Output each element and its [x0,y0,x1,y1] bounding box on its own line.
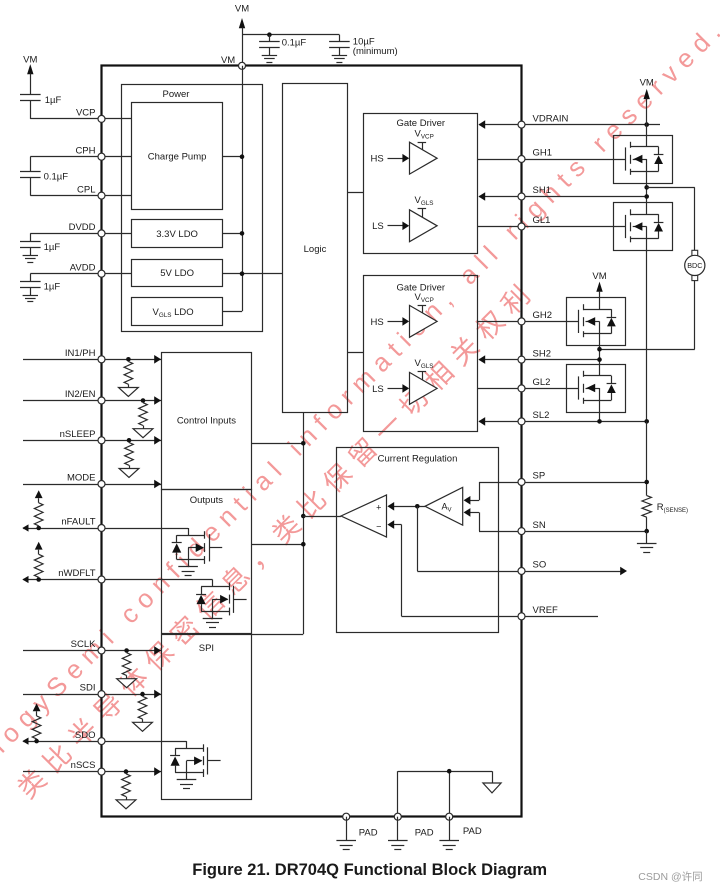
wire PAD1 to ground [346,817,348,841]
node bus at control inputs [301,441,306,446]
wire nWDFLT [23,579,212,581]
node SL2 at M4 source [597,419,602,424]
pin AVDD [98,270,105,277]
block Logic [283,84,348,413]
resistor R(SENSE) [642,496,651,518]
svg-text:PAD: PAD [463,826,482,837]
pin CPH [98,153,105,160]
wire CPL [30,195,131,197]
pin SDO [98,738,105,745]
wire LS input arrow (GD2) [388,388,404,390]
wire AVDD [30,273,131,275]
node nWDFLT pullup tap [36,577,41,582]
svg-text:SL2: SL2 [533,410,550,421]
wire Outputs to bus [251,544,303,546]
svg-text:LS: LS [372,221,384,232]
wire SN [522,531,647,533]
transistor M2 (low side 1) [614,203,673,251]
svg-text:CPH: CPH [75,145,95,156]
svg-text:1µF: 1µF [44,242,61,253]
arrow SDI into SPI [154,690,161,699]
wire VCP [30,118,131,120]
pin SP [518,479,525,486]
wire SH1 to motor [647,187,695,189]
supply tap VGLS (GD2) [418,371,427,373]
wire VM to M1 drain [646,98,648,135]
pin PAD3 [446,813,453,820]
node IN2/EN pulldown tap [141,398,146,403]
capacitor C-DVDD 1uF [30,233,32,241]
svg-text:SN: SN [533,520,546,531]
node SN [644,529,649,534]
logic-low arrow (SCLK) [117,679,137,688]
svg-text:VDRAIN: VDRAIN [533,113,569,124]
svg-text:HS: HS [370,154,383,165]
ground (PAD1) [336,840,356,842]
amplifier AV [425,487,463,525]
pin SH1 [518,193,525,200]
wire SH1 [479,196,647,198]
pin nSCS [98,768,105,775]
wire 5V LDO output to Logic [223,273,283,275]
svg-text:VM: VM [221,55,235,66]
wire SH2 [479,359,600,361]
wire 3.3V LDO to VM rail [223,233,242,235]
svg-text:BDC: BDC [687,261,702,270]
capacitor C-VCP 1uF [30,74,32,95]
transistor M3 (high side 2) [567,298,626,346]
pin IN2/EN [98,397,105,404]
node VDRAIN at VM rail [644,122,649,127]
arrow MODE into Control Inputs [154,480,161,489]
transistor open-drain nWDFLT [212,580,214,587]
svg-text:VM: VM [592,271,606,282]
svg-text:GH1: GH1 [533,148,553,159]
svg-text:VM: VM [23,55,37,66]
block Current Regulation [337,448,499,633]
node SCLK pulldown tap [124,648,129,653]
node SP [644,480,649,485]
logic-low arrow (IN2/EN) [133,429,153,438]
wire PAD2 to ground [397,817,399,841]
wire nFAULT [23,528,188,530]
block VGLS LDO [132,298,223,326]
svg-text:5V LDO: 5V LDO [160,268,194,279]
svg-text:1µF: 1µF [44,282,61,293]
pin GL1 [518,223,525,230]
wire motor to SH2 [694,281,696,350]
supply tap VGLS (GD1) [418,208,427,210]
resistor pulldown (SCLK) [122,653,131,676]
svg-text:SO: SO [533,560,547,571]
wire nSCS [23,771,161,773]
wire SN to ground [646,531,648,543]
node BDC branch (SH2) [597,347,602,352]
wire nSLEEP [23,440,161,442]
transistor open-drain SDO [186,741,188,748]
logic-low arrow (nSLEEP) [119,469,139,478]
wire SN to AV input [479,531,522,533]
ground (AVDD cap) [23,295,38,297]
svg-text:Logic: Logic [304,244,327,255]
node SL2 at sense line [644,419,649,424]
pin VREF [518,613,525,620]
wire M1 source to M2 drain [646,183,648,203]
wire logic bus vertical [303,413,305,634]
svg-text:3.3V LDO: 3.3V LDO [156,229,198,240]
wire VM to M3 drain [599,291,601,298]
svg-text:LS: LS [372,384,384,395]
svg-text:Figure 21. DR704Q Functional B: Figure 21. DR704Q Functional Block Diagr… [192,861,547,879]
wire PAD3 to ground [449,817,451,841]
svg-text:(minimum): (minimum) [353,46,398,57]
pin nWDFLT [98,576,105,583]
transistor open-drain nFAULT [188,528,190,535]
svg-text:PAD: PAD [415,828,434,839]
buffer HS (GD2) [410,305,438,337]
svg-text:nSLEEP: nSLEEP [60,429,96,440]
node nSCS pulldown tap [124,769,129,774]
svg-text:Power: Power [163,89,190,100]
capacitor C-AVDD 1uF [30,274,32,282]
node VM rail at 5V LDO [240,271,245,276]
pin SN [518,528,525,535]
arrow SCLK into SPI [154,646,161,655]
svg-text:1µF: 1µF [45,95,62,106]
wire GL2 [478,388,579,390]
node SDI pulldown tap [140,692,145,697]
ground (PAD3) [439,840,459,842]
buffer LS (GD2) [410,372,438,404]
wire LS input arrow (GD1) [388,225,404,227]
node nFAULT pullup tap [36,526,41,531]
svg-text:nFAULT: nFAULT [61,517,95,528]
resistor pulldown (IN2/EN) [139,403,148,426]
node bus at outputs [301,542,306,547]
capacitor 10uF (minimum) [339,35,341,42]
wire IN2/EN [23,400,161,402]
buffer HS (GD1) [410,142,438,174]
pin GL2 [518,385,525,392]
pin CPL [98,192,105,199]
wire PAD internal tie [397,771,399,817]
pullup arrow (nWDFLT) [35,542,43,550]
svg-text:SPI: SPI [199,643,214,654]
wire IN1/PH [23,359,161,361]
node bus at comparator out [301,514,306,519]
arrow IN1/PH into Control Inputs [154,355,161,364]
wire charge pump to VM rail [223,156,242,158]
pin SL2 [518,418,525,425]
pin IN1/PH [98,356,105,363]
node SH1 [644,194,649,199]
wire VDRAIN [479,124,660,126]
wire HS input arrow (GD1) [388,158,404,160]
svg-text:VREF: VREF [533,605,559,616]
wire SP [522,482,647,484]
wire VM arrow to VM pin [242,27,244,65]
wire SO external [522,571,621,573]
block Power [122,85,263,332]
arrow nSLEEP into Control Inputs [154,436,161,445]
wire SL2 [479,421,647,423]
node VM rail at charge pump [240,154,245,159]
node top rail junction [267,32,272,37]
supply tap VVCP (GD2) [418,305,427,307]
svg-text:HS: HS [370,317,383,328]
svg-text:SH2: SH2 [533,348,551,359]
block Control Inputs [162,353,252,490]
node nSLEEP pulldown tap [127,438,132,443]
pin SO [518,568,525,575]
svg-text:nWDFLT: nWDFLT [58,568,95,579]
wire SP to AV input [479,482,522,484]
svg-text:VCP: VCP [76,108,96,119]
wire sense resistor to SN [646,517,648,531]
node IN1/PH pulldown tap [126,357,131,362]
wire GL1 [478,226,626,228]
arrow SDO out (left) [22,738,28,745]
wire SDO [23,741,186,743]
svg-text:Control Inputs: Control Inputs [177,416,236,427]
logic-ground arrow (PAD tie) [483,783,501,793]
comparator (current regulation) [341,495,387,537]
node SH2 [597,357,602,362]
resistor pullup (nWDFLT) [34,554,43,577]
pin VCP [98,115,105,122]
pin PAD1 [343,813,350,820]
arrow nWDFLT out (left) [22,576,28,583]
supply tap VVCP (GD1) [418,142,427,144]
arrow SL2 into GD2 [478,417,485,426]
arrow SH2 into GD2 [478,355,485,364]
resistor pulldown (nSLEEP) [125,443,134,466]
wire MODE [23,484,161,486]
wire GH2 [478,321,579,323]
wire HS input arrow (GD2) [388,321,404,323]
main IC outline box [102,66,522,817]
pin GH1 [518,156,525,163]
wire M3 source to M4 drain [599,346,601,365]
svg-text:Charge Pump: Charge Pump [148,152,207,163]
svg-text:MODE: MODE [67,473,96,484]
svg-text:Current Regulation: Current Regulation [378,454,458,465]
wire VREF to comparator − [402,616,522,618]
svg-text:−: − [376,522,381,532]
wire top decoupling rail [242,34,339,36]
svg-text:Outputs: Outputs [190,495,224,506]
arrow SO out [620,567,627,576]
svg-text:DVDD: DVDD [69,222,96,233]
wire SL2 node to sense resistor [646,421,648,495]
motor BDC [692,250,698,256]
node VM rail at 3.3V LDO [240,231,245,236]
capacitor C-FLY 0.1uF [30,157,32,171]
pin MODE [98,481,105,488]
block Charge Pump [132,103,223,210]
svg-text:SH1: SH1 [533,185,551,196]
svg-text:CSDN @许同: CSDN @许同 [638,870,702,883]
pin PAD2 [394,813,401,820]
arrow IN2/EN into Control Inputs [154,396,161,405]
buffer LS (GD1) [410,210,438,242]
pin DVDD [98,230,105,237]
wire AV output to comparator + [394,506,425,508]
logic-low arrow (nSCS) [116,800,136,809]
svg-text:SCLK: SCLK [71,639,96,650]
resistor pulldown (IN1/PH) [124,362,133,385]
capacitor 0.1uF (top) [269,35,271,42]
svg-text:AVDD: AVDD [70,262,96,273]
svg-text:GH2: GH2 [533,310,553,321]
svg-text:IN2/EN: IN2/EN [65,389,96,400]
pin nSLEEP [98,437,105,444]
wire GH1 [478,159,626,161]
node PAD tie [447,769,452,774]
pin SCLK [98,647,105,654]
svg-text:SDI: SDI [80,683,96,694]
pin VDRAIN [518,121,525,128]
arrow SH1 into GD1 [478,192,485,201]
arrow nFAULT out (left) [22,524,28,531]
wire Logic to Gate Driver 1 [348,192,364,194]
svg-text:nSCS: nSCS [71,760,96,771]
pin nFAULT [98,525,105,532]
node BDC branch (SH1) [644,185,649,190]
ground (10uF) [332,55,347,57]
block Gate Driver 2 [364,276,478,432]
svg-text:SDO: SDO [75,730,96,741]
transistor M1 (high side 1) [614,136,673,184]
ground (0.1uF top) [262,55,277,57]
pullup arrow (SDO) [33,703,41,711]
logic-low arrow (SDI) [133,722,153,731]
resistor pulldown (SDI) [138,696,147,719]
pullup arrow (nFAULT) [35,490,43,498]
wire SO from AV output [417,506,419,571]
resistor pulldown (nSCS) [122,774,131,797]
svg-text:+: + [376,503,381,513]
wire SDI [23,694,161,696]
svg-text:IN1/PH: IN1/PH [65,348,96,359]
ground (PAD2) [388,840,408,842]
wire CPH [30,156,131,158]
wire SCLK [23,650,161,652]
node AV output to SO [415,504,420,509]
logic-low arrow (IN1/PH) [119,388,139,397]
arrow VDRAIN into GD1 [478,120,485,129]
svg-text:0.1µF: 0.1µF [44,172,69,183]
block Gate Driver 1 [364,114,478,254]
wire VM internal rail [242,66,244,311]
pin SDI [98,691,105,698]
wire M2 source down to SL2 node [646,251,648,422]
svg-text:VM: VM [235,4,249,15]
svg-text:SP: SP [533,471,546,482]
svg-text:VM: VM [640,78,654,89]
arrow nSCS into SPI [154,767,161,776]
pin VM (top) [239,62,246,69]
ground (sense) [637,543,657,545]
wire M4 source to SL2 [599,413,601,422]
svg-text:GL1: GL1 [533,215,551,226]
resistor pullup (nFAULT) [34,503,43,526]
wire DVDD [30,233,131,235]
pin GH2 [518,318,525,325]
wire VREF external [522,616,599,618]
node SDO pullup tap [34,739,39,744]
wire comparator output to bus [303,516,341,518]
wire Control Inputs to bus [251,443,303,445]
transistor M4 (low side 2) [567,365,626,413]
block SPI [162,635,252,800]
svg-text:PAD: PAD [359,828,378,839]
svg-text:CPL: CPL [77,184,95,195]
ground (DVDD cap) [23,255,38,257]
block 5V LDO [132,260,223,287]
svg-text:VGLS LDO: VGLS LDO [153,307,194,319]
wire Logic to Gate Driver 2 [348,352,364,354]
svg-text:Gate Driver: Gate Driver [397,118,446,129]
block 3.3V LDO [132,220,223,248]
resistor pullup (SDO) [32,716,41,739]
pin SH2 [518,356,525,363]
svg-text:0.1µF: 0.1µF [282,37,307,48]
svg-text:GL2: GL2 [533,377,551,388]
block Outputs [162,490,252,634]
